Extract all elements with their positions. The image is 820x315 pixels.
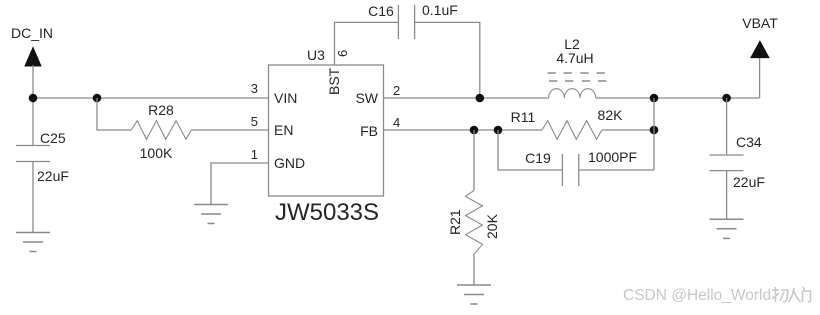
svg-text:22uF: 22uF (733, 174, 765, 190)
inductor L2 (549, 89, 596, 98)
wire C19 branch left (498, 130, 562, 170)
svg-text:R11: R11 (511, 109, 536, 125)
watermark CJK glyph 入 (789, 288, 801, 302)
svg-text:CSDN @Hello_World: CSDN @Hello_World (623, 287, 771, 304)
wire R28 to EN pin (191, 129, 268, 131)
svg-text:R21: R21 (447, 209, 463, 235)
svg-text:BST: BST (326, 67, 342, 95)
watermark CJK glyph 门 (803, 287, 811, 302)
resistor R28 (131, 121, 191, 140)
capacitor C16 (398, 5, 414, 39)
svg-text:DC_IN: DC_IN (11, 25, 53, 41)
wire DC_IN vertical drop (32, 65, 34, 146)
ground under C34 (710, 219, 744, 238)
capacitor C19 (562, 154, 578, 186)
ground under GND pin (194, 205, 228, 224)
junction C19 tap (494, 126, 503, 135)
svg-text:3: 3 (251, 81, 258, 96)
junction at R28 tap (93, 94, 102, 103)
svg-text:22uF: 22uF (37, 168, 69, 184)
svg-text:2: 2 (393, 83, 400, 98)
svg-text:C34: C34 (736, 134, 762, 150)
wire R21 to ground (473, 254, 475, 285)
svg-text:VIN: VIN (274, 90, 297, 106)
svg-text:4.7uH: 4.7uH (556, 50, 593, 66)
L2 core dashes row 2 (549, 80, 606, 82)
junction SW node (476, 94, 485, 103)
wire main input rail to VIN (33, 97, 269, 99)
L2 core dashes row 1 (548, 72, 605, 74)
wire GND pin to ground (211, 163, 269, 205)
ground under C25 (16, 233, 50, 252)
svg-text:R28: R28 (148, 102, 174, 118)
wire R28 tap vertical (97, 98, 131, 130)
ground under R21 (457, 285, 491, 304)
wire C19 branch right (579, 169, 654, 171)
junction at DC_IN (29, 94, 38, 103)
svg-text:5: 5 (251, 114, 258, 129)
wire C34 tap down (726, 98, 728, 155)
wire FB pin to R11 (384, 129, 543, 131)
op-amp U1: IC U3 body JW5033S (269, 65, 384, 196)
svg-text:82K: 82K (598, 107, 624, 123)
wire C25 to ground (32, 162, 34, 233)
power flag VBAT arrow (751, 41, 769, 57)
capacitor C25 (16, 146, 50, 162)
svg-text:EN: EN (274, 122, 293, 138)
svg-text:20K: 20K (484, 213, 500, 239)
svg-text:C25: C25 (40, 130, 66, 146)
svg-text:1: 1 (251, 147, 258, 162)
resistor R11 (542, 121, 602, 140)
svg-text:FB: FB (360, 123, 378, 139)
wire FB node down to R21 (473, 130, 475, 191)
wire SW pin to L2 (384, 97, 549, 99)
svg-text:6: 6 (335, 50, 350, 57)
wire C16 down to SW rail (415, 22, 480, 98)
svg-text:C19: C19 (525, 150, 551, 166)
wire R11 to output node (602, 129, 654, 131)
svg-text:0.1uF: 0.1uF (422, 2, 458, 18)
junction L2 output (650, 94, 659, 103)
junction R11 right (650, 126, 659, 135)
wire L2 to VBAT node (596, 97, 760, 99)
svg-text:1000PF: 1000PF (588, 149, 637, 165)
svg-text:C16: C16 (368, 3, 394, 19)
wire output vertical tie (653, 98, 655, 170)
power flag DC_IN arrow (25, 48, 41, 67)
junction C34 tap (722, 94, 731, 103)
svg-text:JW5033S: JW5033S (275, 199, 379, 226)
svg-text:VBAT: VBAT (742, 15, 778, 31)
wire C34 to ground (726, 171, 728, 220)
svg-text:4: 4 (393, 115, 400, 130)
resistor R21 (vertical) (466, 191, 483, 255)
svg-text:100K: 100K (140, 145, 173, 161)
svg-text:SW: SW (355, 90, 378, 106)
wire VBAT vertical (759, 57, 761, 98)
svg-text:GND: GND (274, 155, 305, 171)
junction R21 tap (470, 126, 479, 135)
watermark CJK glyph 初 (772, 287, 788, 302)
capacitor C34 (710, 155, 744, 171)
wire BST pin up and over to C16 (335, 22, 399, 65)
svg-text:U3: U3 (307, 47, 325, 63)
